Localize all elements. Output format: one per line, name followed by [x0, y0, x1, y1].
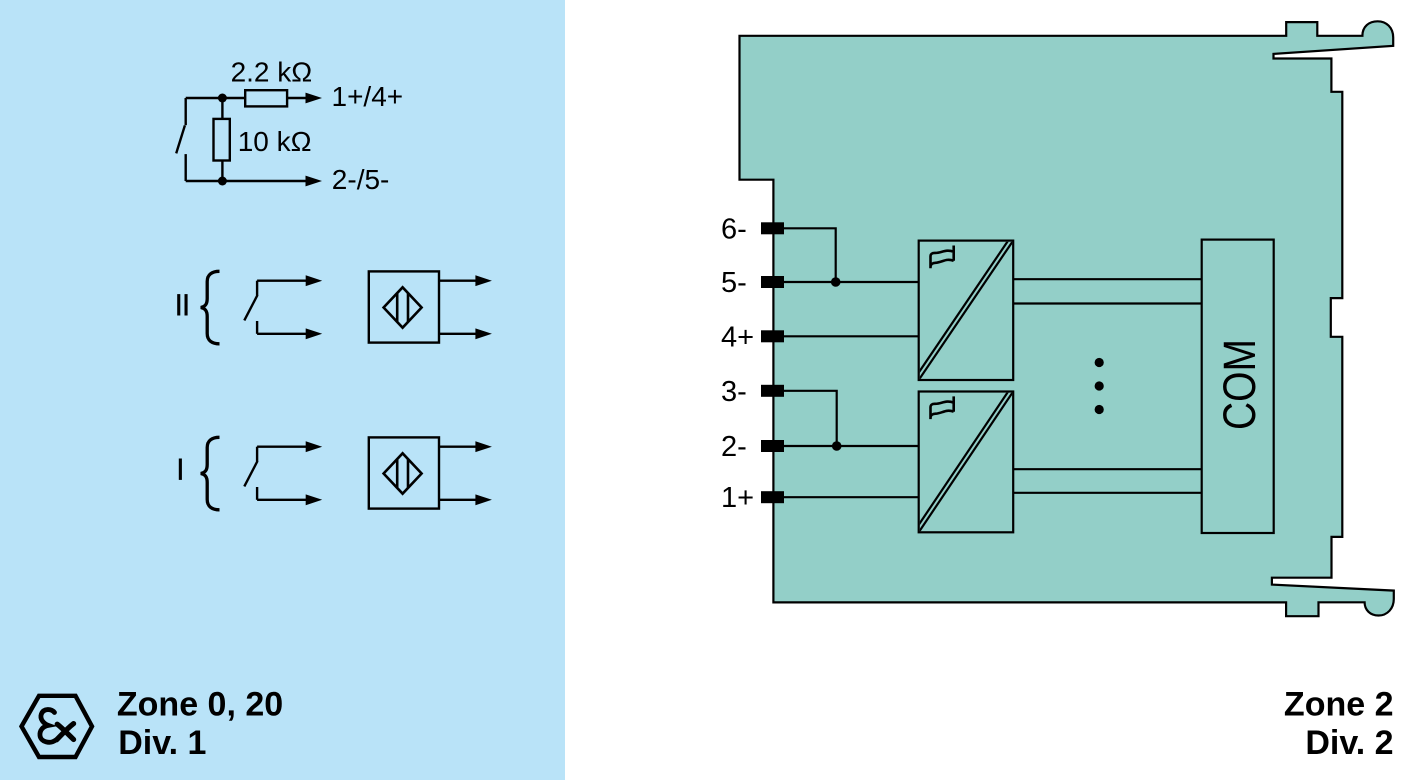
switch S2 lower contact	[256, 321, 258, 334]
svg-text:COM: COM	[1214, 339, 1265, 430]
isolation amplifier U2	[916, 389, 1014, 533]
Ex x glyph	[57, 724, 74, 740]
svg-text:6-: 6-	[721, 213, 747, 245]
resistor R1 2.2 kOhm	[245, 90, 287, 106]
wire: switch S3 bottom output	[257, 499, 307, 501]
channel label II	[177, 294, 187, 315]
svg-text:2.2 kΩ: 2.2 kΩ	[231, 56, 313, 87]
NAMUR sensor B2 box	[369, 271, 439, 342]
wire: sensor B1 bottom output	[439, 499, 477, 501]
wire: node A to resistor R2	[221, 98, 223, 119]
svg-text:1+: 1+	[721, 482, 754, 514]
wire terminal 6- to node C	[784, 228, 836, 282]
switch S3 lower contact	[256, 487, 258, 500]
wire terminal 2- to isolator U2	[784, 445, 919, 447]
Ex hexagon symbol	[22, 696, 93, 757]
U2 signal symbol	[931, 396, 954, 419]
arrowhead sensor B2 top	[475, 275, 492, 286]
svg-text:2-/5-: 2-/5-	[332, 164, 390, 195]
svg-text:1+/4+: 1+/4+	[332, 81, 404, 112]
sensor B2 proximity symbol	[384, 287, 422, 327]
svg-text:Div. 1: Div. 1	[118, 724, 206, 762]
switch S2 blade	[244, 295, 257, 320]
svg-text:4+: 4+	[721, 321, 754, 353]
switch S3 upper contact	[256, 447, 258, 462]
wire terminal 4+ to isolator U1	[784, 335, 919, 337]
wire U2 output lower to COM	[1013, 492, 1201, 494]
wire: switch S2 bottom output	[257, 333, 307, 335]
svg-text:10 kΩ: 10 kΩ	[238, 126, 312, 157]
hazardous-area zone background	[0, 0, 565, 780]
sensor B1 proximity symbol	[384, 453, 422, 493]
isolator module housing outline	[740, 21, 1394, 616]
wire: sensor B1 top output	[439, 446, 477, 448]
arrowhead sensor B2 bottom	[475, 328, 492, 339]
switch S2 upper contact	[256, 281, 258, 296]
wire: resistor R2 to node B	[221, 161, 223, 182]
arrowhead sensor B1 bottom	[475, 494, 492, 505]
switch S1 blade	[176, 125, 185, 153]
arrowhead switch S3 top	[306, 441, 323, 452]
node C junction	[831, 277, 841, 287]
svg-text:2-: 2-	[721, 431, 747, 463]
svg-text:Zone 2: Zone 2	[1284, 686, 1394, 724]
switch S1 lower contact	[184, 154, 186, 181]
wire U1 output lower to COM	[1013, 302, 1201, 304]
terminal 5-	[761, 276, 784, 288]
svg-text:3-: 3-	[721, 376, 747, 408]
terminal 2-	[761, 440, 784, 452]
wire: sensor B2 bottom output	[439, 333, 477, 335]
switch S3 blade	[244, 461, 257, 486]
wire: sensor B2 top output	[439, 280, 477, 282]
brace channel I	[201, 437, 220, 510]
node A junction	[218, 94, 227, 103]
wire U1 output upper to COM	[1013, 278, 1201, 280]
wire: bottom branch to 2-/5-	[186, 180, 307, 182]
terminal 1+	[761, 491, 784, 503]
terminal 3-	[761, 385, 784, 397]
wire: top branch to 1+/4+	[186, 97, 307, 99]
svg-text:5-: 5-	[721, 267, 747, 299]
wire terminal 5- to isolator U1	[784, 281, 919, 283]
node B junction	[218, 177, 227, 186]
terminal 6-	[761, 222, 784, 234]
arrowhead to 1+/4+	[306, 93, 323, 104]
resistor R2 10 kOhm	[214, 119, 230, 161]
COM block	[1202, 240, 1274, 533]
bus continuation dot 2	[1095, 381, 1104, 390]
bus continuation dot 1	[1095, 358, 1104, 367]
Ex epsilon glyph	[40, 710, 56, 743]
U1 signal symbol	[931, 246, 954, 269]
wire terminal 3- to node D	[784, 391, 837, 446]
svg-text:Div. 2: Div. 2	[1305, 724, 1393, 762]
NAMUR sensor B1 box	[369, 437, 439, 508]
wire: switch S3 top output	[257, 446, 307, 448]
bus continuation dot 3	[1095, 405, 1104, 414]
channel label I	[179, 459, 182, 480]
wire: switch S2 top output	[257, 280, 307, 282]
svg-text:Zone 0, 20: Zone 0, 20	[117, 686, 283, 724]
wire U2 output upper to COM	[1013, 468, 1201, 470]
arrowhead switch S3 bottom	[306, 494, 323, 505]
wire terminal 1+ to isolator U2	[784, 496, 919, 498]
brace channel II	[201, 271, 220, 344]
arrowhead switch S2 bottom	[306, 328, 323, 339]
isolation amplifier U1	[916, 238, 1014, 380]
arrowhead switch S2 top	[306, 275, 323, 286]
arrowhead sensor B1 top	[475, 441, 492, 452]
arrowhead to 2-/5-	[306, 176, 323, 187]
terminal 4+	[761, 330, 784, 342]
node D junction	[832, 441, 842, 451]
switch S1 upper contact	[184, 98, 186, 125]
